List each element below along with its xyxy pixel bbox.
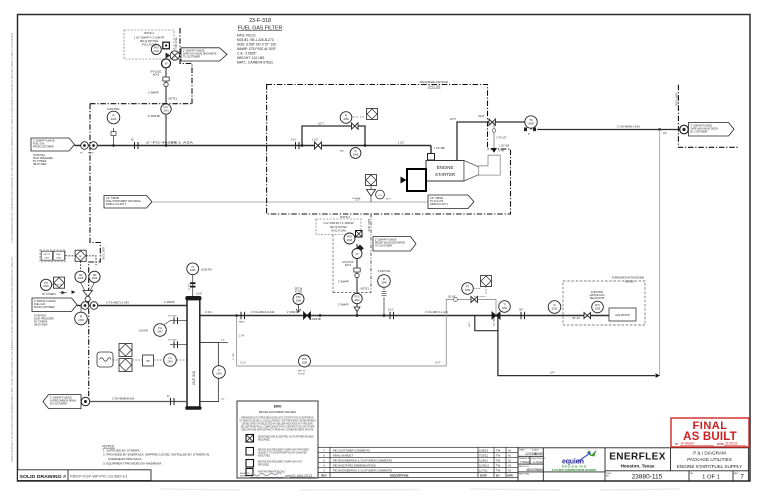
svg-text:PID HAZOP RECOMMENDATIONS: PID HAZOP RECOMMENDATIONS: [333, 463, 376, 467]
svg-text:REQUIRED.: REQUIRED.: [258, 440, 271, 442]
svg-text:4520098580: 4520098580: [526, 468, 544, 472]
svg-text:1/4"T: 1/4"T: [469, 321, 471, 327]
svg-text:XV: XV: [164, 64, 168, 66]
svg-text:23880-115 SHT 1: 23880-115 SHT 1: [430, 204, 449, 206]
svg-text:AC: AC: [167, 394, 170, 397]
svg-text:2255: 2255: [552, 307, 558, 310]
svg-text:DAC: DAC: [57, 253, 62, 256]
svg-text:SKID LIMIT: SKID LIMIT: [675, 93, 678, 106]
svg-text:FUEL GAS FILTER: FUEL GAS FILTER: [238, 26, 283, 32]
svg-text:2"-SA-46095-1-A3A: 2"-SA-46095-1-A3A: [617, 124, 640, 128]
svg-text:2302: 2302: [43, 285, 49, 288]
svg-text:2"-FG-23034-D-A3A: 2"-FG-23034-D-A3A: [251, 310, 275, 314]
svg-text:2342: 2342: [154, 50, 160, 53]
svg-text:BY CUSTOMER: BY CUSTOMER: [691, 131, 708, 133]
svg-text:2064: 2064: [296, 299, 302, 302]
svg-text:DATE: DATE: [480, 473, 487, 477]
svg-text:BY OTHERS: BY OTHERS: [42, 294, 56, 296]
svg-text:24 STEPS COMPRESSION DIVISION: 24 STEPS COMPRESSION DIVISION: [552, 468, 597, 472]
svg-text:2"-150# RF FLANGE: 2"-150# RF FLANGE: [375, 238, 397, 241]
svg-text:PID ENGINEERING & CUSTOMER COM: PID ENGINEERING & CUSTOMER COMMENTS: [333, 468, 392, 472]
svg-text:BY OTHERS: BY OTHERS: [33, 161, 47, 163]
svg-text:REVIEWED AND ACCEPTED, NO FURT: REVIEWED AND ACCEPTED, NO FURTHER REVIEW: [258, 436, 314, 439]
svg-text:INDICATED.: INDICATED.: [258, 455, 271, 458]
svg-text:75-95 PSIG: 75-95 PSIG: [33, 155, 45, 157]
svg-text:PACKAGED AIR SKID: PACKAGED AIR SKID: [420, 80, 448, 84]
svg-text:1/25/12: 1/25/12: [479, 458, 488, 462]
svg-text:SAFE GAS VALVE DISCHARGE: SAFE GAS VALVE DISCHARGE: [183, 53, 217, 56]
svg-text:1 1/2"-SW: 1 1/2"-SW: [499, 145, 511, 148]
svg-text:1"-FG-46071-1-A3A: 1"-FG-46071-1-A3A: [425, 310, 448, 314]
svg-text:APR: APR: [507, 473, 513, 477]
svg-text:2"-150# RF: 2"-150# RF: [148, 115, 161, 118]
svg-text:1/2 TBG: 1/2 TBG: [494, 318, 496, 326]
svg-text:PACKAGE UTILITIES: PACKAGE UTILITIES: [687, 457, 732, 462]
svg-text:47 PSI: 47 PSI: [295, 291, 303, 294]
svg-text:A.Jones: A.Jones: [532, 460, 543, 464]
svg-text:NOTE 1: NOTE 1: [169, 98, 179, 101]
svg-text:SET @: SET @: [298, 371, 306, 373]
svg-text:2341: 2341: [354, 299, 360, 302]
svg-text:1/4"T: 1/4"T: [386, 199, 392, 201]
svg-text:R.Weber: R.Weber: [681, 442, 695, 446]
svg-text:EWO: EWO: [274, 405, 282, 409]
svg-text:1 1/2"-150# RF X 2"-150# RF: 1 1/2"-150# RF X 2"-150# RF: [323, 223, 354, 225]
svg-text:REVISE AND RESUBMIT. WORK MAY: REVISE AND RESUBMIT. WORK MAY PROCEED: [258, 449, 309, 452]
svg-text:2305: 2305: [78, 277, 84, 280]
svg-text:1"-FD-46096-B-A3A: 1"-FD-46096-B-A3A: [112, 397, 135, 400]
svg-text:C.A.: 0.0625": C.A.: 0.0625": [237, 52, 257, 56]
svg-text:SIZE: 6-5/8" OD X 57" S/S: SIZE: 6-5/8" OD X 57" S/S: [237, 43, 277, 47]
svg-text:TRD LINE: TRD LINE: [175, 37, 178, 49]
svg-text:FM16: FM16: [239, 322, 245, 324]
svg-text:TW: TW: [496, 458, 501, 462]
svg-text:2341: 2341: [163, 109, 169, 112]
svg-text:2347: 2347: [157, 330, 163, 333]
svg-text:1/2 TBG: 1/2 TBG: [188, 283, 190, 291]
svg-text:2"-FG: 2"-FG: [205, 311, 212, 314]
svg-text:2"-150# RF FLANGE: 2"-150# RF FLANGE: [183, 50, 205, 53]
svg-text:STARTER: STARTER: [435, 172, 455, 177]
svg-text:2345: 2345: [190, 269, 196, 272]
svg-text:75-95 PSIG: 75-95 PSIG: [34, 316, 46, 318]
svg-text:SUBJECT TO INCORPORATION OF CH: SUBJECT TO INCORPORATION OF CHANGES: [258, 452, 307, 455]
svg-text:NOTE 2: NOTE 2: [340, 215, 350, 219]
svg-text:2"-60# RF: 2"-60# RF: [164, 301, 175, 304]
svg-text:2294: 2294: [502, 307, 508, 310]
svg-text:2345: 2345: [216, 372, 222, 375]
svg-text:1/2"x1/4": 1/2"x1/4": [352, 198, 361, 200]
svg-text:BY CUSTOMER: BY CUSTOMER: [50, 403, 67, 405]
svg-text:NC: NC: [79, 256, 83, 258]
svg-text:INJECTION: INJECTION: [591, 292, 603, 294]
svg-text:1/2"T: 1/2"T: [450, 118, 456, 121]
svg-text:PERMISSION TO PROCEED DOES NOT: PERMISSION TO PROCEED DOES NOT CONSTITUT…: [241, 417, 314, 420]
svg-text:TW: TW: [496, 453, 501, 457]
svg-text:1/4": 1/4": [663, 133, 667, 135]
svg-text:2090: 2090: [528, 122, 534, 125]
svg-text:2339: 2339: [78, 319, 84, 322]
svg-text:0-160 PSIG: 0-160 PSIG: [378, 270, 391, 273]
svg-text:2"-150# RF: 2"-150# RF: [309, 318, 322, 321]
svg-text:FRD/F-FGF-WP-PIC-23-380-1/1: FRD/F-FGF-WP-PIC-23-380-1/1: [70, 473, 128, 478]
svg-text:REV: REV: [734, 473, 739, 475]
svg-text:CHECKED BY: CHECKED BY: [531, 458, 546, 460]
svg-text:NO=3: NO=3: [345, 264, 352, 267]
svg-text:BY: BY: [675, 442, 679, 446]
svg-text:TW: TW: [496, 468, 501, 472]
svg-text:1/2"T: 1/2"T: [318, 122, 324, 125]
svg-text:23880-115: 23880-115: [632, 474, 663, 481]
svg-text:2" #1: 2" #1: [499, 150, 505, 153]
svg-text:TO CUSTOMER: TO CUSTOMER: [183, 57, 200, 59]
svg-text:NONE: NONE: [534, 452, 543, 456]
svg-text:2346: 2346: [381, 281, 387, 284]
svg-text:BUYER'S: BUYER'S: [240, 473, 250, 475]
svg-text:2"-150# RF FLANGE: 2"-150# RF FLANGE: [50, 396, 72, 399]
svg-text:2"-300# RF FLANGE: 2"-300# RF FLANGE: [34, 300, 56, 303]
svg-text:2"-150# RF: 2"-150# RF: [287, 311, 300, 314]
svg-text:PROCEED.: PROCEED.: [258, 465, 270, 467]
svg-text:DEVELOPED OR SELECTED BY SELLE: DEVELOPED OR SELECTED BY SELLER AND DOES…: [242, 423, 313, 426]
svg-text:11/30/11: 11/30/11: [479, 463, 490, 467]
svg-text:2306: 2306: [92, 277, 98, 280]
svg-text:OBLIGATIONS NOR DETRACT FROM A: OBLIGATIONS NOR DETRACT FROM ANY OTHER B…: [241, 429, 314, 432]
svg-text:MFG: PECO: MFG: PECO: [237, 34, 256, 38]
svg-text:BY: BY: [496, 473, 500, 477]
svg-text:MAWP: 275 PSIG @ 100F: MAWP: 275 PSIG @ 100F: [237, 47, 276, 51]
svg-text:FUEL GAS: FUEL GAS: [34, 303, 46, 306]
svg-text:2"-FG: 2"-FG: [171, 141, 177, 144]
svg-text:OVERHEAD PIPE RACK.: OVERHEAD PIPE RACK.: [108, 457, 143, 461]
svg-text:1/2"T: 1/2"T: [435, 362, 441, 365]
svg-text:(98-97) NEW: (98-97) NEW: [34, 325, 48, 327]
svg-text:1/2"T&M: 1/2"T&M: [168, 316, 177, 318]
svg-text:SOLID DRAWING #: SOLID DRAWING #: [20, 474, 67, 479]
svg-text:2"-FG-46093-1-A3A: 2"-FG-46093-1-A3A: [146, 140, 194, 144]
svg-text:1 1/2": 1 1/2": [398, 142, 405, 145]
svg-text:TO 23-F-315: TO 23-F-315: [430, 201, 444, 203]
svg-text:3/4"-FG: 3/4"-FG: [572, 318, 580, 320]
svg-text:2085: 2085: [353, 153, 359, 156]
svg-text:P R O / E N - P I D: P R O / E N - P I D: [562, 464, 586, 468]
svg-text:PID CUSTOMER COMMENTS: PID CUSTOMER COMMENTS: [333, 448, 370, 452]
svg-text:FURNISHED WITH ENGINE: FURNISHED WITH ENGINE: [612, 277, 644, 280]
svg-text:2343: 2343: [347, 239, 353, 242]
svg-text:RELIEF VALVE DISCHARGE: RELIEF VALVE DISCHARGE: [375, 241, 406, 244]
svg-text:(FULL FLOW): (FULL FLOW): [331, 231, 346, 233]
svg-text:SKID LIMIT: SKID LIMIT: [368, 218, 371, 231]
svg-text:2"x1": 2"x1": [291, 138, 297, 141]
svg-text:NO: NO: [606, 475, 610, 477]
svg-text:FUEL INSTRUMENT AIR PURGE: FUEL INSTRUMENT AIR PURGE: [106, 200, 141, 203]
svg-text:ENERFLEX: ENERFLEX: [609, 452, 666, 463]
svg-text:NDL: NDL: [340, 151, 345, 153]
svg-text:AC: AC: [131, 139, 135, 142]
svg-text:BILLED DOCUMENT REVIEW: BILLED DOCUMENT REVIEW: [259, 410, 296, 414]
svg-text:SC: SC: [80, 153, 83, 155]
svg-text:1/4": 1/4": [550, 371, 554, 374]
svg-text:HYDROCARBON DRAIN: HYDROCARBON DRAIN: [50, 399, 76, 402]
svg-text:3. EQUIPMENT PROVIDED BY MA: 3. EQUIPMENT PROVIDED BY MADRENA.: [103, 461, 162, 465]
svg-text:0-30 PSI: 0-30 PSI: [139, 331, 148, 333]
svg-text:NOTE 3: NOTE 3: [625, 281, 635, 284]
svg-text:REGULATOR: REGULATOR: [590, 297, 604, 300]
svg-text:WEIGHT: 132 LBS: WEIGHT: 132 LBS: [237, 56, 265, 60]
svg-text:GAS MOTOR: GAS MOTOR: [615, 314, 630, 317]
svg-text:7/23/12: 7/23/12: [479, 453, 488, 457]
svg-text:FUEL GAS: FUEL GAS: [33, 142, 45, 145]
svg-text:PCV: PCV: [378, 195, 383, 197]
svg-text:1" TBG: 1" TBG: [233, 353, 235, 360]
svg-text:1/2" TUBING: 1/2" TUBING: [106, 198, 119, 200]
svg-text:SET @ 60 PSIG: SET @ 60 PSIG: [330, 227, 347, 229]
svg-text:11/7/11: 11/7/11: [479, 468, 488, 472]
svg-text:NO=3: NO=3: [153, 74, 160, 77]
svg-text:2055: 2055: [595, 307, 601, 310]
svg-text:3/4": 3/4": [519, 309, 523, 312]
svg-text:TW: TW: [496, 448, 501, 452]
svg-text:2054: 2054: [302, 361, 308, 364]
svg-text:ENGINE: ENGINE: [437, 165, 454, 170]
svg-text:REF DWG: REF DWG: [519, 474, 530, 476]
svg-text:AND IS SUBJECT TO RETURN UPON: AND IS SUBJECT TO RETURN UPON DEMAND AND…: [10, 257, 14, 462]
svg-text:23-F-318: 23-F-318: [249, 18, 271, 24]
svg-text:2"-150# RF FLANGE: 2"-150# RF FLANGE: [691, 124, 713, 127]
svg-text:DESCRIPTION: DESCRIPTION: [390, 473, 408, 477]
svg-text:(WASTE GAS): (WASTE GAS): [589, 294, 604, 297]
svg-text:52 PSI: 52 PSI: [298, 373, 305, 375]
svg-text:(2)-1/4": (2)-1/4": [448, 297, 456, 299]
svg-text:MODEL: 98-1-326-B-273: MODEL: 98-1-326-B-273: [237, 38, 274, 42]
svg-text:2"x1": 2"x1": [388, 309, 394, 312]
svg-text:INLET PRESSURE: INLET PRESSURE: [33, 158, 53, 160]
svg-text:T.Weber: T.Weber: [520, 460, 530, 464]
svg-text:0 TO 1/2": 0 TO 1/2": [497, 137, 507, 140]
svg-text:1-1/2": 1-1/2": [240, 362, 246, 365]
svg-text:(98-97) NEW: (98-97) NEW: [33, 164, 47, 166]
svg-text:1/2" TUBING: 1/2" TUBING: [430, 198, 443, 200]
svg-text:REVISE AND RESUBMIT. WORK MAY: REVISE AND RESUBMIT. WORK MAY NOT: [258, 461, 303, 464]
svg-text:DATE: DATE: [717, 442, 724, 446]
svg-text:Houston, Texas: Houston, Texas: [621, 464, 655, 469]
svg-text:2344: 2344: [167, 360, 173, 363]
svg-text:1-1/4": 1-1/4": [239, 336, 245, 338]
svg-text:TO CUSTOMER: TO CUSTOMER: [375, 245, 392, 247]
svg-text:SKID LIMIT: SKID LIMIT: [103, 247, 106, 260]
svg-text:SAFE (AIR) VALVE DISCH: SAFE (AIR) VALVE DISCH: [691, 127, 719, 130]
svg-text:1/05/13: 1/05/13: [479, 448, 488, 452]
svg-text:OF DESIGN DETAILS, CALCULATION: OF DESIGN DETAILS, CALCULATIONS, TEST ME…: [239, 420, 316, 423]
svg-text:DRAWN BY: DRAWN BY: [519, 457, 531, 460]
svg-text:1. SUPPLIED BY OTHERS.: 1. SUPPLIED BY OTHERS.: [103, 448, 140, 452]
svg-text:2086: 2086: [343, 118, 349, 121]
svg-text:REV: REV: [321, 473, 327, 477]
svg-text:MAT'L: CARBON STEEL: MAT'L: CARBON STEEL: [237, 61, 274, 65]
svg-text:SELLER FROM FULL COMPLIANCE WI: SELLER FROM FULL COMPLIANCE WITH CONTRAC…: [241, 426, 315, 429]
svg-text:FM01: FM01: [88, 153, 94, 155]
svg-text:NOTE 4: NOTE 4: [144, 31, 154, 35]
svg-text:2256: 2256: [465, 289, 471, 292]
svg-text:INLET PRESSURE: INLET PRESSURE: [34, 319, 54, 321]
svg-text:15-01-302: 15-01-302: [428, 85, 441, 89]
svg-text:7: 7: [740, 474, 744, 481]
svg-text:2"-300# RF FLANGE: 2"-300# RF FLANGE: [33, 140, 55, 143]
svg-text:PID ENGINEERING & CUSTOMER COM: PID ENGINEERING & CUSTOMER COMMENTS: [333, 458, 392, 462]
svg-text:2"-60# RF: 2"-60# RF: [338, 280, 349, 283]
svg-text:SET @ 250 PSIG: SET @ 250 PSIG: [140, 41, 158, 43]
svg-text:FROM CUSTOMER: FROM CUSTOMER: [34, 307, 55, 309]
svg-text:SH: SH: [690, 473, 693, 475]
svg-text:BY OTHERS: BY OTHERS: [34, 322, 48, 324]
svg-text:PB: PB: [146, 361, 150, 363]
svg-text:0-160 PSI: 0-160 PSI: [201, 268, 212, 271]
svg-text:2"-FG-46071-1-A3A: 2"-FG-46071-1-A3A: [106, 301, 129, 305]
svg-text:1/2": 1/2": [221, 399, 225, 401]
svg-text:2340: 2340: [111, 118, 117, 121]
svg-text:1-1/2": 1-1/2": [196, 293, 202, 296]
svg-text:1 1/2"-BW: 1 1/2"-BW: [434, 147, 446, 150]
svg-text:P & I DIAGRAM: P & I DIAGRAM: [693, 451, 726, 456]
svg-text:THIS DRAWING AND ALL INFORMATI: THIS DRAWING AND ALL INFORMATION THEREON…: [10, 33, 14, 243]
svg-text:ENGINE START/FUEL SUPPLY: ENGINE START/FUEL SUPPLY: [677, 464, 742, 469]
svg-text:23-F-318: 23-F-318: [192, 371, 196, 385]
svg-text:2"-60# RF: 2"-60# RF: [148, 92, 159, 95]
svg-text:1 1/2"-150# RF X 2"-150# RF: 1 1/2"-150# RF X 2"-150# RF: [134, 38, 165, 40]
svg-text:TW: TW: [496, 463, 501, 467]
svg-text:1 OF 1: 1 OF 1: [702, 474, 720, 480]
svg-text:FROM CUSTOMER: FROM CUSTOMER: [33, 146, 54, 148]
svg-text:1/2": 1/2": [221, 340, 225, 342]
svg-text:XV: XV: [355, 253, 359, 256]
svg-text:2": 2": [528, 133, 530, 136]
svg-text:11/16/11: 11/16/11: [725, 442, 738, 446]
svg-text:(O)1A: (O)1A: [478, 115, 485, 118]
svg-text:NOTE 1: NOTE 1: [361, 288, 371, 291]
svg-text:DRY N': DRY N': [43, 254, 50, 256]
svg-text:1/2"T&M: 1/2"T&M: [168, 339, 177, 341]
svg-text:0-300 PSIG: 0-300 PSIG: [107, 108, 120, 111]
svg-text:2"-60# RF: 2"-60# RF: [338, 303, 349, 306]
svg-text:1 1/2": 1 1/2": [312, 138, 318, 141]
svg-text:FINAL AS-BUILT: FINAL AS-BUILT: [333, 453, 353, 457]
svg-text:23880-1-101 SHT 1: 23880-1-101 SHT 1: [106, 204, 127, 206]
